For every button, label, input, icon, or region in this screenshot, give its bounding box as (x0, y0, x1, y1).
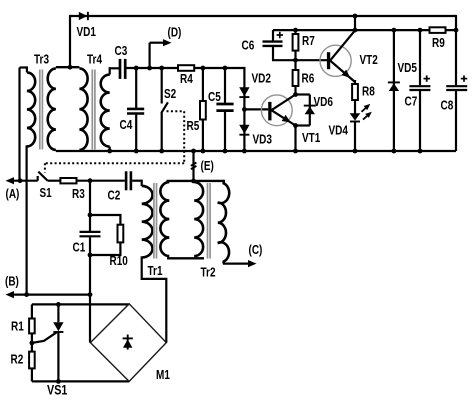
switch S2 (161, 68, 163, 104)
transistor VT1 (261, 95, 292, 126)
resistor R8 (354, 80, 356, 114)
transformer Tr1 primary winding (141, 180, 143, 186)
capacitor C6 (272, 30, 274, 41)
svg-text:VD3: VD3 (253, 132, 273, 146)
wire riser to top rail at VT2 collector (354, 16, 356, 30)
resistor R4 (178, 65, 194, 71)
svg-text:C3: C3 (115, 44, 128, 58)
svg-text:VD4: VD4 (329, 123, 349, 137)
svg-text:R4: R4 (180, 72, 193, 86)
svg-text:R8: R8 (362, 84, 375, 98)
svg-text:(E): (E) (201, 159, 214, 173)
diode VD5 (393, 30, 395, 151)
resistor R9 (430, 27, 446, 33)
wire VT1 emitter to rail (294, 126, 296, 152)
wire bottom bar to M1 bottom corner (32, 380, 129, 382)
svg-text:R2: R2 (11, 352, 24, 366)
transformer Tr2 core (207, 183, 209, 259)
svg-text:C6: C6 (242, 39, 255, 53)
node (B) junctions (24, 292, 29, 297)
node oscillator rail junctions (134, 66, 139, 71)
svg-text:R7: R7 (302, 34, 315, 48)
svg-text:C8: C8 (441, 98, 454, 112)
resistor R3 (60, 178, 76, 183)
wire (E) riser to Tr1/Tr2 winding (192, 151, 194, 181)
wire (A) line with arrow (12, 180, 38, 182)
capacitor C5 (224, 68, 226, 103)
svg-text:VS1: VS1 (47, 382, 68, 397)
node VT1 base (242, 107, 247, 112)
thyristor VS1 (57, 304, 59, 322)
switch S1 (38, 172, 48, 181)
wire right edge vertical (455, 15, 457, 85)
svg-text:VD5: VD5 (398, 61, 418, 75)
svg-text:Tr3: Tr3 (34, 53, 49, 67)
diode VD6 parallel to VT1 (296, 93, 310, 95)
capacitor C7 (419, 30, 421, 85)
node C1/R10 junctions (88, 213, 93, 218)
transformer Tr4 secondary winding (110, 67, 120, 69)
svg-text:(A): (A) (6, 187, 20, 201)
resistor R7 (294, 30, 296, 60)
wire +supply sub-rail (273, 29, 456, 31)
transformer Tr3 primary winding (18, 68, 20, 181)
transformer Tr4 core (91, 70, 93, 150)
svg-text:C1: C1 (73, 240, 86, 254)
bridge rectifier M1 (90, 304, 166, 382)
capacitor C1 (80, 231, 101, 233)
resistor R2 (29, 352, 35, 369)
transformer Tr1/Tr2 shared winding (167, 180, 224, 182)
wire Tr1 bottom to M1 (142, 256, 167, 342)
wire C1 branch vertical (89, 181, 91, 232)
svg-text:C4: C4 (120, 118, 133, 132)
wire (B) line with arrow (12, 294, 90, 296)
wire VT2 base rail (272, 59, 327, 61)
svg-text:VD1: VD1 (77, 25, 97, 39)
svg-text:VT2: VT2 (360, 53, 378, 67)
svg-text:(C): (C) (249, 243, 263, 257)
resistor R10 parallel loop (90, 215, 120, 225)
wire VT1 base (244, 108, 268, 110)
svg-text:VD6: VD6 (314, 95, 334, 109)
svg-text:R6: R6 (302, 72, 315, 86)
svg-text:R9: R9 (432, 36, 445, 50)
svg-text:R1: R1 (11, 320, 24, 334)
wire M1 left corner feed (89, 295, 91, 343)
resistor R1 (31, 304, 33, 318)
wire R3 to C2 (77, 180, 125, 182)
resistor R6 (294, 60, 296, 94)
svg-text:Tr1: Tr1 (148, 264, 163, 278)
svg-text:R10: R10 (110, 254, 128, 268)
capacitor C8 (446, 85, 467, 87)
wire Tr3 secondary bottom to (B) (26, 145, 28, 294)
svg-text:C2: C2 (108, 188, 121, 202)
svg-text:S2: S2 (164, 87, 176, 101)
transformer Tr1 core (153, 183, 155, 259)
transformer Tr2 secondary winding (218, 180, 229, 264)
node sub-rail junctions (353, 14, 358, 19)
wire common bottom rail (56, 150, 456, 152)
capacitor C4 (135, 68, 137, 108)
svg-text:VT1: VT1 (302, 131, 320, 145)
transformer Tr3/Tr4 shared winding (56, 66, 80, 68)
svg-text:(D): (D) (168, 25, 182, 39)
diode VD2 (243, 67, 245, 110)
wire top supply rail (70, 15, 456, 17)
wire (D) output arrow (149, 43, 151, 68)
node bottom rail junctions (107, 149, 112, 154)
svg-text:C5: C5 (208, 90, 221, 104)
svg-text:(B): (B) (5, 275, 19, 289)
wire VD1 riser from Tr3/Tr4 winding top (69, 15, 71, 67)
svg-text:R5: R5 (187, 119, 200, 133)
node R1/R2 gate junction (31, 333, 33, 351)
transistor VT2 (320, 45, 351, 76)
svg-text:Tr2: Tr2 (201, 265, 216, 279)
svg-text:R3: R3 (72, 187, 85, 201)
capacitor C2 (125, 171, 128, 190)
svg-text:VD2: VD2 (252, 72, 272, 86)
svg-text:Tr4: Tr4 (87, 53, 102, 67)
wire C2 to Tr1 (132, 180, 142, 182)
resistor R5 (202, 68, 204, 151)
diode VD3 (243, 109, 245, 151)
wire (C) output arrow (223, 263, 250, 265)
wire oscillator rail (127, 67, 245, 69)
LED VD4 (350, 113, 361, 120)
wire dotted mechanical link S2-S1 (167, 110, 185, 112)
node (A) junctions (18, 178, 23, 183)
svg-text:M1: M1 (156, 368, 170, 382)
junction break symbol at (E) (191, 163, 197, 166)
capacitor C3 (119, 59, 122, 79)
wire VS1/R1 top bar to M1 top corner (32, 303, 129, 305)
svg-text:C7: C7 (405, 95, 418, 109)
svg-text:S1: S1 (40, 186, 52, 200)
diode VD1 (79, 12, 88, 20)
transformer Tr3 core (39, 70, 41, 150)
